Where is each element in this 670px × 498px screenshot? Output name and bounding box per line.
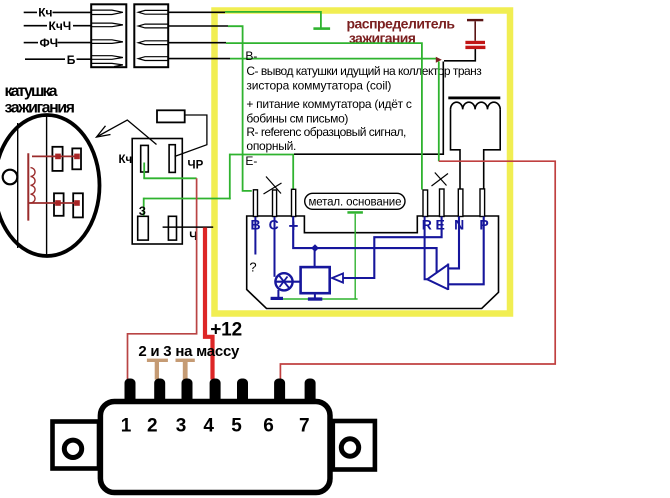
- svg-text:+12: +12: [210, 320, 242, 341]
- pin +: [292, 189, 296, 216]
- relay connector K1: [132, 139, 182, 245]
- wire blue block bottom lead: [314, 293, 316, 297]
- svg-text:З: З: [139, 206, 146, 218]
- coil primary core (red): [27, 153, 29, 220]
- coil red bottom lead: [29, 202, 79, 204]
- wire blue E to block arrow: [343, 217, 442, 279]
- connector X2 body: [100, 402, 330, 493]
- svg-text:R- referenc образцовый сигнал,: R- referenc образцовый сигнал,: [246, 125, 406, 139]
- junction dot: [311, 244, 319, 252]
- ground bar (block): [308, 297, 322, 300]
- svg-text:ФЧ: ФЧ: [40, 36, 59, 50]
- wire red +12 to pin 4: [205, 228, 213, 380]
- wire blue pin C to transistor: [274, 217, 276, 277]
- connector X2 pin 1: [125, 379, 136, 405]
- svg-text:5: 5: [231, 416, 242, 437]
- capacitor C1: [465, 19, 485, 49]
- wire green Б (В- line): [230, 58, 436, 60]
- connector X2 pin 6: [274, 379, 285, 405]
- svg-text:бобины см письмо): бобины см письмо): [246, 112, 348, 126]
- svg-text:С- вывод катушки идущий на кол: С- вывод катушки идущий на коллектор тра…: [246, 64, 482, 78]
- wire Б: [25, 58, 91, 60]
- svg-text:опорный.: опорный.: [246, 139, 296, 153]
- svg-text:зажигания: зажигания: [5, 100, 76, 117]
- connector X2 pin 2: [154, 379, 165, 405]
- svg-text:4: 4: [203, 416, 214, 437]
- pin C: [273, 190, 277, 217]
- svg-text:Е-: Е-: [245, 154, 257, 168]
- connector block J1 (male blades): [91, 4, 126, 67]
- wire green metal base down: [354, 214, 356, 299]
- svg-text:Кч: Кч: [119, 154, 133, 166]
- svg-text:2: 2: [147, 416, 158, 437]
- pin E: [440, 189, 445, 217]
- svg-text:ЧР: ЧР: [188, 159, 204, 171]
- wire green ФЧ down to pin R: [226, 43, 422, 190]
- svg-text:2 и 3 на массу: 2 и 3 на массу: [138, 343, 240, 360]
- wire black node В- down to Е- line: [294, 62, 443, 155]
- coil terminal rects: [52, 147, 82, 218]
- wire black relay Ч pin: [163, 226, 214, 228]
- inductor L1 body legs: [451, 109, 501, 188]
- svg-text:Б: Б: [67, 53, 76, 67]
- pin B: [253, 190, 257, 217]
- pin P: [480, 189, 485, 217]
- coil small circle: [3, 170, 18, 185]
- marker arrows top: [55, 154, 61, 160]
- pin R: [423, 190, 428, 217]
- ground mark pin 3 (brown T): [176, 359, 195, 380]
- svg-text:6: 6: [263, 416, 274, 437]
- wire blue main + line: [293, 217, 436, 273]
- svg-text:7: 7: [299, 416, 310, 437]
- wire green metal base bottom: [271, 298, 358, 300]
- wire blue block top lead: [314, 247, 316, 267]
- svg-text:Е: Е: [436, 217, 445, 233]
- connector X2 pin 3: [182, 379, 193, 405]
- metal base green tick: [347, 211, 363, 214]
- coil chord lines: [18, 115, 47, 255]
- commutator U1 body: [247, 216, 499, 309]
- svg-text:КчЧ: КчЧ: [49, 19, 72, 33]
- right tab hole: [341, 439, 358, 456]
- svg-text:катушка: катушка: [5, 83, 58, 100]
- connector X2 pin 5: [237, 379, 248, 405]
- wire red Кч to connector pin 1: [128, 178, 197, 379]
- connector X2 right tab: [333, 421, 375, 470]
- svg-text:R: R: [422, 217, 432, 233]
- metal base bubble: [305, 193, 405, 209]
- comparator triangle A1: [427, 264, 448, 291]
- X mark over pin E: [432, 173, 449, 187]
- wire green Кч to distributor ground: [225, 12, 321, 28]
- marker arrows bottom: [55, 200, 61, 206]
- svg-text:?: ?: [249, 260, 256, 275]
- svg-text:3: 3: [176, 416, 187, 437]
- coil red top lead: [32, 155, 79, 157]
- transistor Q1: [275, 273, 300, 297]
- wire green З net: [144, 198, 231, 216]
- wire blue R to triangle apex: [425, 217, 428, 280]
- connector X2 left tab: [53, 422, 100, 469]
- commutator outline yellow box: [215, 11, 511, 314]
- left tab hole: [64, 440, 81, 457]
- ground mark pin 2 (brown T): [147, 359, 168, 380]
- arrow to ignition coil: [97, 120, 157, 145]
- wire black capacitor to node В-: [444, 49, 475, 61]
- inductor L1 winding: [451, 102, 501, 109]
- wire green В- down right side: [438, 62, 440, 162]
- ground bar (transistor emitter): [271, 297, 283, 300]
- X mark over pin C: [264, 177, 282, 195]
- pin N: [458, 189, 463, 217]
- wire red В- loop to pin 6: [280, 161, 555, 379]
- connector X2 pin 7: [305, 379, 316, 405]
- inductor L1 top bar: [448, 97, 500, 100]
- ground bar (distributor): [313, 27, 330, 30]
- connector block J2 (female sockets): [134, 4, 168, 67]
- svg-text:метал. основание: метал. основание: [309, 197, 402, 209]
- wire blue N to triangle: [448, 217, 459, 269]
- wire J2 to yellow box (4 black stubs): [168, 12, 230, 58]
- svg-text:В-: В-: [245, 49, 257, 63]
- wire green relay Кч pin: [143, 163, 196, 179]
- wire green КчЧ down to pin B: [228, 26, 252, 191]
- ignition coil T1 body: [0, 115, 100, 256]
- wire blue pin B stub: [254, 217, 256, 255]
- wire КчЧ: [24, 25, 92, 27]
- wire ФЧ: [24, 42, 92, 44]
- coil winding (red spring): [31, 168, 36, 203]
- wire green Е- line: [230, 154, 294, 200]
- component box (resistor) above relay: [157, 110, 185, 122]
- svg-text:зистора коммутатора (coil): зистора коммутатора (coil): [246, 79, 391, 93]
- arrowhead into block: [332, 273, 343, 282]
- svg-text:Кч: Кч: [38, 6, 52, 20]
- svg-text:1: 1: [121, 416, 132, 437]
- IC block U2: [301, 267, 330, 293]
- wire blue P to triangle: [448, 217, 483, 285]
- svg-text:+ питание коммутатора (идёт с: + питание коммутатора (идёт с: [246, 97, 412, 111]
- connector X2 pin 4: [210, 379, 221, 405]
- node В- junction arrow: [436, 57, 442, 63]
- wire Кч (top left): [24, 11, 92, 13]
- wire resistor to relay pin ЧР: [175, 115, 207, 157]
